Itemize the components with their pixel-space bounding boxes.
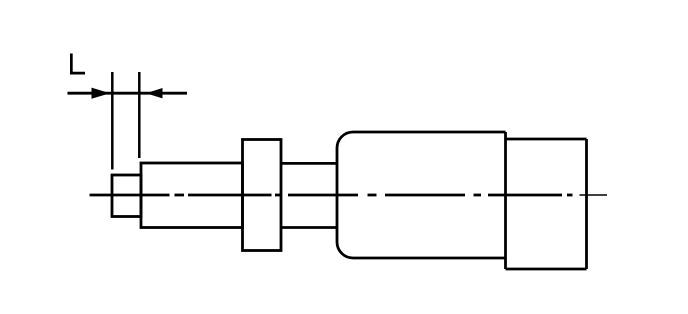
centerline dash segments bbox=[90, 194, 573, 197]
body right edge / end-cap left edge bbox=[504, 132, 507, 269]
dimension label L bbox=[70, 54, 85, 75]
extension line left bbox=[111, 72, 114, 170]
centerline thin end segment bbox=[580, 194, 608, 196]
pin tip rectangle bbox=[112, 175, 141, 217]
extension line right bbox=[138, 72, 141, 158]
dimension line bbox=[68, 92, 188, 95]
right arrowhead bbox=[146, 88, 163, 98]
end cap right edge bbox=[585, 139, 588, 269]
shaft rectangle bbox=[141, 163, 243, 228]
body outline with rounded left corners bbox=[337, 132, 506, 258]
end cap bottom edge bbox=[506, 268, 587, 271]
end cap top edge bbox=[506, 138, 587, 141]
neck bottom line bbox=[281, 226, 337, 229]
neck top line bbox=[281, 162, 337, 165]
left arrowhead bbox=[92, 88, 111, 99]
flange rectangle bbox=[243, 140, 282, 251]
